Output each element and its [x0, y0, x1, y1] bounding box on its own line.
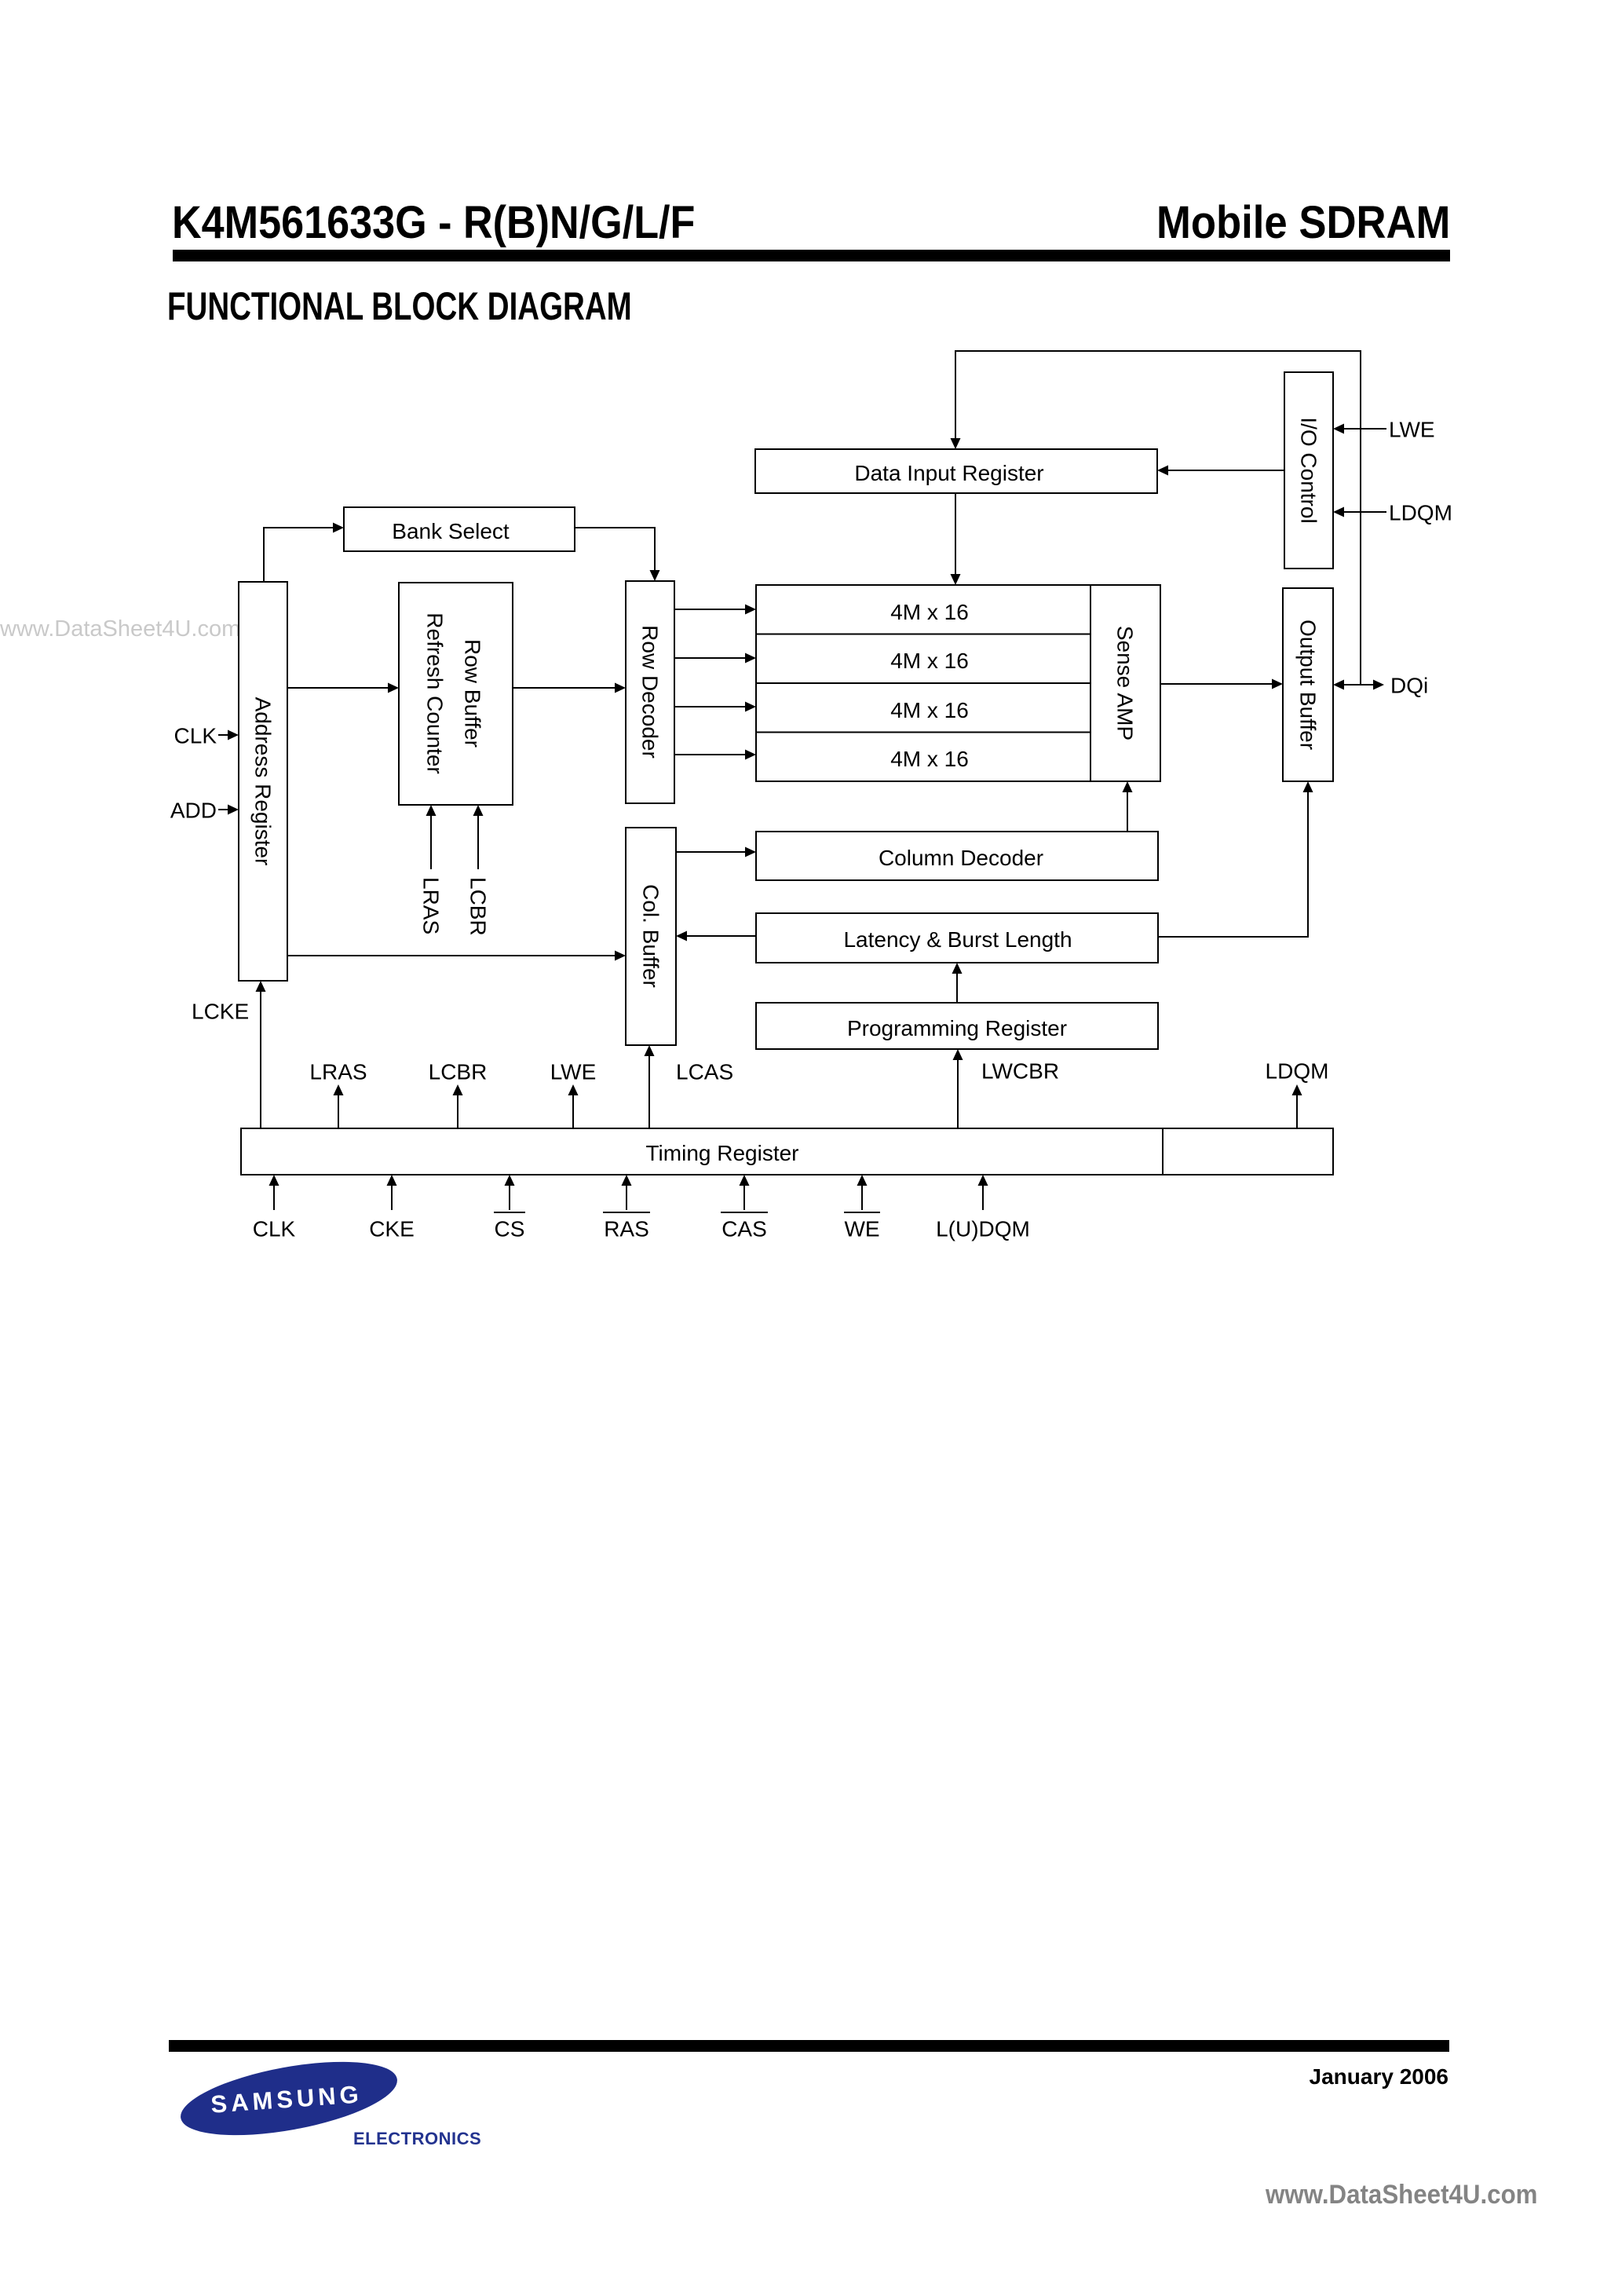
wire sense amp to output buffer — [1160, 679, 1283, 689]
svg-text:Row Decoder: Row Decoder — [638, 625, 663, 759]
wire latency to col buffer — [676, 931, 756, 941]
svg-text:ADD: ADD — [170, 799, 217, 823]
address register box — [239, 582, 287, 981]
svg-text:WE: WE — [844, 1217, 879, 1241]
footer watermark — [1266, 2181, 1537, 2208]
wire CLK into timing register — [269, 1175, 279, 1210]
svg-text:Latency & Burst Length: Latency & Burst Length — [843, 927, 1072, 952]
svg-text:CLK: CLK — [174, 724, 217, 748]
footer rule — [169, 2040, 1449, 2052]
wire row decoder to bank 1 — [674, 653, 756, 664]
wire LWE up — [568, 1084, 579, 1128]
svg-text:CLK: CLK — [253, 1217, 296, 1241]
svg-text:CS: CS — [495, 1217, 525, 1241]
row buffer refresh counter box — [399, 583, 513, 805]
left watermark — [0, 618, 240, 641]
svg-text:ELECTRONICS: ELECTRONICS — [353, 2129, 481, 2148]
svg-text:4M x 16: 4M x 16 — [890, 600, 969, 624]
wire column decoder to sense amp — [1123, 781, 1133, 832]
svg-text:Output Buffer: Output Buffer — [1296, 620, 1321, 750]
svg-text:Programming Register: Programming Register — [847, 1016, 1067, 1040]
svg-text:4M x 16: 4M x 16 — [890, 698, 969, 722]
svg-text:Address Register: Address Register — [251, 697, 276, 866]
wire row decoder to bank 2 — [674, 702, 756, 712]
wire LCBR up — [453, 1084, 463, 1128]
label WE with overline — [844, 1212, 880, 1241]
wire LDQM to io control — [1333, 507, 1386, 517]
wire ADD to address register — [218, 805, 239, 815]
column decoder box — [756, 832, 1158, 880]
svg-text:CAS: CAS — [721, 1217, 767, 1241]
wire RAS into timing register — [622, 1175, 632, 1210]
svg-text:Data Input Register: Data Input Register — [854, 461, 1043, 485]
svg-text:Column Decoder: Column Decoder — [879, 846, 1043, 870]
svg-text:LRAS: LRAS — [309, 1060, 367, 1084]
wire output buffer to DQi — [1333, 680, 1384, 690]
wire LRAS up — [334, 1084, 344, 1128]
wire CLK to address register — [218, 730, 239, 740]
wire address register to bank select — [264, 523, 344, 583]
samsung logo — [149, 2042, 526, 2175]
svg-text:LDQM: LDQM — [1389, 501, 1452, 525]
programming register box — [756, 1003, 1158, 1049]
svg-text:Bank Select: Bank Select — [392, 519, 510, 543]
bank select box — [344, 507, 575, 551]
wire LWE to io control — [1333, 424, 1386, 434]
wire LCBR to row buffer — [473, 805, 484, 869]
col buffer box — [626, 828, 676, 1045]
svg-text:DQi: DQi — [1390, 674, 1428, 698]
svg-text:LCBR: LCBR — [466, 877, 491, 936]
svg-text:LWE: LWE — [550, 1060, 597, 1084]
label CAS with overline — [721, 1212, 768, 1241]
data input register box — [755, 449, 1157, 493]
wire row buffer to row decoder — [513, 683, 626, 693]
svg-text:Row Buffer: Row Buffer — [461, 639, 485, 748]
wire WE into timing register — [857, 1175, 868, 1210]
wire row decoder to bank 0 — [674, 605, 756, 615]
wire data input register to array — [951, 493, 961, 585]
wire LUDQM into timing register — [978, 1175, 988, 1210]
wire programming register to latency — [952, 963, 963, 1003]
svg-text:Sense AMP: Sense AMP — [1113, 626, 1138, 740]
section heading — [167, 287, 632, 326]
svg-text:LWE: LWE — [1389, 418, 1435, 442]
output buffer box — [1283, 588, 1333, 781]
wire row decoder to bank 3 — [674, 750, 756, 760]
date — [1310, 2066, 1448, 2088]
timing register box — [241, 1128, 1333, 1175]
svg-text:LRAS: LRAS — [419, 877, 444, 934]
wire io control to data input register — [1157, 466, 1284, 476]
svg-text:Col. Buffer: Col. Buffer — [639, 884, 663, 988]
header rule — [173, 250, 1450, 261]
wire LCAS to col buffer — [645, 1045, 655, 1128]
svg-text:RAS: RAS — [604, 1217, 649, 1241]
wire LWCBR to programming register — [953, 1049, 963, 1128]
label RAS with overline — [603, 1212, 650, 1241]
wire CAS into timing register — [740, 1175, 750, 1210]
svg-text:4M x 16: 4M x 16 — [890, 649, 969, 673]
label CS with overline — [494, 1212, 525, 1241]
svg-text:4M x 16: 4M x 16 — [890, 747, 969, 771]
svg-text:LWCBR: LWCBR — [981, 1059, 1059, 1084]
latency burst length box — [756, 913, 1158, 963]
svg-text:Timing Register: Timing Register — [645, 1141, 798, 1165]
io control box — [1284, 372, 1333, 569]
header doc type title — [1156, 200, 1450, 246]
wire address register to row buffer — [287, 683, 399, 693]
header part number title — [172, 200, 695, 246]
wire address register to col buffer — [287, 951, 626, 961]
wire bank select to row decoder — [575, 528, 660, 581]
row decoder box — [626, 581, 674, 803]
wire LDQM up — [1292, 1084, 1302, 1128]
svg-text:I/O Control: I/O Control — [1297, 417, 1321, 523]
wire latency to output buffer — [1158, 781, 1313, 937]
wire CS into timing register — [505, 1175, 515, 1210]
wire feedback top to data input register — [951, 351, 1361, 685]
wire LRAS to row buffer — [426, 805, 437, 869]
svg-text:Refresh Counter: Refresh Counter — [423, 612, 448, 773]
svg-text:LCKE: LCKE — [192, 1000, 249, 1024]
memory bank array box — [756, 585, 1160, 781]
svg-text:L(U)DQM: L(U)DQM — [936, 1217, 1030, 1241]
svg-text:LCBR: LCBR — [429, 1060, 488, 1084]
wire LCKE timing register to address register — [256, 981, 266, 1128]
svg-text:LCAS: LCAS — [676, 1060, 733, 1084]
wire CKE into timing register — [387, 1175, 397, 1210]
svg-text:LDQM: LDQM — [1266, 1059, 1329, 1084]
svg-text:CKE: CKE — [369, 1217, 415, 1241]
wire col buffer to column decoder — [676, 847, 756, 857]
